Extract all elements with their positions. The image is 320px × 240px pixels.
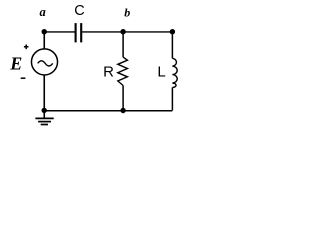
inductor L coil: [172, 58, 177, 87]
wire resistor bottom: [122, 85, 124, 110]
ground bar 2: [38, 121, 51, 123]
svg-text:E: E: [9, 54, 22, 74]
wire resistor top: [122, 32, 124, 57]
svg-text:L: L: [157, 64, 165, 81]
capacitor C plate right: [80, 23, 82, 42]
ground stub: [43, 110, 45, 118]
minus sign: [21, 77, 26, 79]
wire top rail left (node a to capacitor): [44, 31, 75, 33]
svg-text:b: b: [124, 5, 130, 19]
resistor R zigzag: [118, 57, 128, 85]
capacitor C plate left: [75, 23, 77, 42]
ground bar 3: [41, 124, 48, 126]
wire inductor top: [171, 32, 173, 59]
node a: [42, 29, 47, 34]
wire source bottom: [43, 75, 45, 110]
ground bar 1: [35, 117, 53, 119]
node top-right corner: [170, 29, 175, 34]
svg-text:a: a: [39, 5, 45, 19]
svg-text:C: C: [74, 3, 84, 19]
AC source E circle: [31, 49, 57, 75]
wire inductor bottom: [171, 88, 173, 111]
wire top rail right (capacitor to top-right corner): [81, 31, 172, 33]
node resistor-bottom junction: [120, 108, 125, 113]
wire source top: [43, 32, 45, 49]
wire bottom rail: [44, 110, 172, 112]
node ground junction: [42, 108, 47, 113]
plus sign: [24, 45, 29, 50]
node b: [120, 29, 125, 34]
svg-text:R: R: [103, 64, 114, 81]
AC source sine wave: [38, 61, 53, 66]
